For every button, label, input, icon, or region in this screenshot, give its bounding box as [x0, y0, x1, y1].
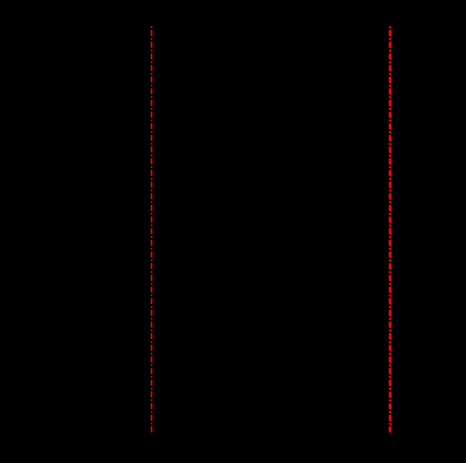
vertical dash-dot line 2 (red, x~390, two nearly coincident lines)	[389, 26, 392, 432]
vertical dash-dot line 1 (red, x=151.6)	[151, 26, 153, 432]
